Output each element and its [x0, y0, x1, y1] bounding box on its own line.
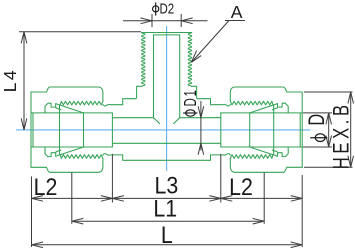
L4 arrow top [21, 32, 27, 44]
nut thread zigzag bottom [60, 155, 103, 159]
front ferrule cone bottom [56, 147, 84, 156]
svg-text:HEX.B: HEX.B [329, 101, 354, 169]
phiD2 arrow right [181, 18, 193, 24]
back ferrule top [45, 103, 56, 113]
phiD1 arrow bottom [198, 143, 204, 155]
L2/L3 boundary extension right [220, 154, 222, 203]
nut thread zigzag top [60, 101, 103, 105]
port thread wave [142, 33, 146, 87]
tube hole line top [31, 112, 112, 114]
svg-text:L2: L2 [229, 173, 253, 201]
tee fitting body (green) [31, 33, 302, 173]
nut back collar bottom [31, 167, 50, 172]
svg-text:L: L [161, 221, 173, 249]
hole chamfer at nut face [32, 113, 34, 147]
nut back collar top [31, 87, 50, 92]
label phiD phi glyph [310, 134, 327, 142]
back ferrule bottom [45, 147, 56, 157]
L2 right arrow [291, 196, 303, 202]
right extension line [301, 175, 303, 247]
L3/L2 arrows right pair [209, 196, 221, 202]
HEXB arrow bottom [348, 156, 354, 168]
svg-text:A: A [231, 2, 243, 22]
svg-text:D1: D1 [182, 88, 201, 106]
bore bottom line [112, 142, 166, 144]
port bore line [153, 35, 155, 118]
nut hex top [50, 87, 103, 101]
A leader [192, 21, 245, 63]
HEXB arrow top [348, 92, 354, 104]
L4 dimension line [23, 32, 25, 130]
svg-text:L2: L2 [34, 173, 58, 201]
phiD extension top [303, 112, 332, 114]
body step top [123, 99, 136, 105]
L2 left arrow [32, 196, 44, 202]
L1 arrows [72, 218, 84, 224]
phiD1 dimension line [200, 101, 202, 151]
ferrule contact line [59, 105, 61, 155]
port top chamfer line [154, 34, 180, 36]
phiD extension bottom [303, 146, 332, 148]
front ferrule cone top [56, 104, 84, 113]
L4 extension line [19, 31, 141, 33]
bore top line [112, 117, 153, 119]
label phiD2 phi glyph [153, 3, 159, 16]
L dimension line [32, 244, 303, 246]
thread runout top [103, 104, 123, 106]
HEXB extension top [304, 91, 353, 93]
A leader arrowhead [191, 51, 201, 63]
svg-text:D: D [305, 114, 330, 126]
phiD2 dimension line [123, 20, 208, 22]
body bottom face [123, 155, 167, 160]
bore shoulder [111, 113, 113, 147]
L4 arrow bottom [21, 118, 27, 129]
HEXB extension bottom [304, 166, 353, 168]
L2 L3 L2 dimension line [32, 197, 303, 199]
ferrule edge bottom [56, 150, 61, 152]
vertical centerline [166, 26, 168, 171]
tube hole line bottom [31, 146, 112, 148]
HEXB dimension line [350, 92, 352, 167]
phiD2 arrow left [141, 18, 153, 24]
phiD dimension line [328, 113, 330, 147]
L2/L3 boundary extension left [111, 154, 113, 203]
body mouth edge [83, 113, 85, 147]
phiD2 extension ticks [151, 14, 153, 27]
mirrored right half of fitting [167, 33, 303, 173]
L2/L3 arrows left pair [101, 196, 113, 202]
label phiD1 phi glyph [183, 110, 197, 116]
phiD1 arrow top [198, 106, 204, 118]
port base left [136, 86, 142, 98]
drill intersection [154, 118, 160, 124]
ferrule edge top [56, 108, 61, 110]
horizontal centerline [16, 129, 311, 131]
phiD arrow top [326, 113, 332, 125]
L1 extension left [71, 173, 73, 224]
svg-text:L4: L4 [0, 68, 20, 92]
L1 extension right [263, 173, 265, 224]
port top edge [142, 32, 192, 34]
svg-text:D2: D2 [160, 0, 175, 17]
nut hex bottom [50, 158, 103, 172]
thread runout bottom [103, 154, 123, 156]
nut back face [30, 92, 32, 167]
L arrows [32, 242, 44, 248]
L1 dimension line [72, 220, 264, 222]
left extension line [31, 177, 33, 248]
svg-text:L1: L1 [153, 194, 177, 222]
phiD arrow bottom [326, 136, 332, 148]
